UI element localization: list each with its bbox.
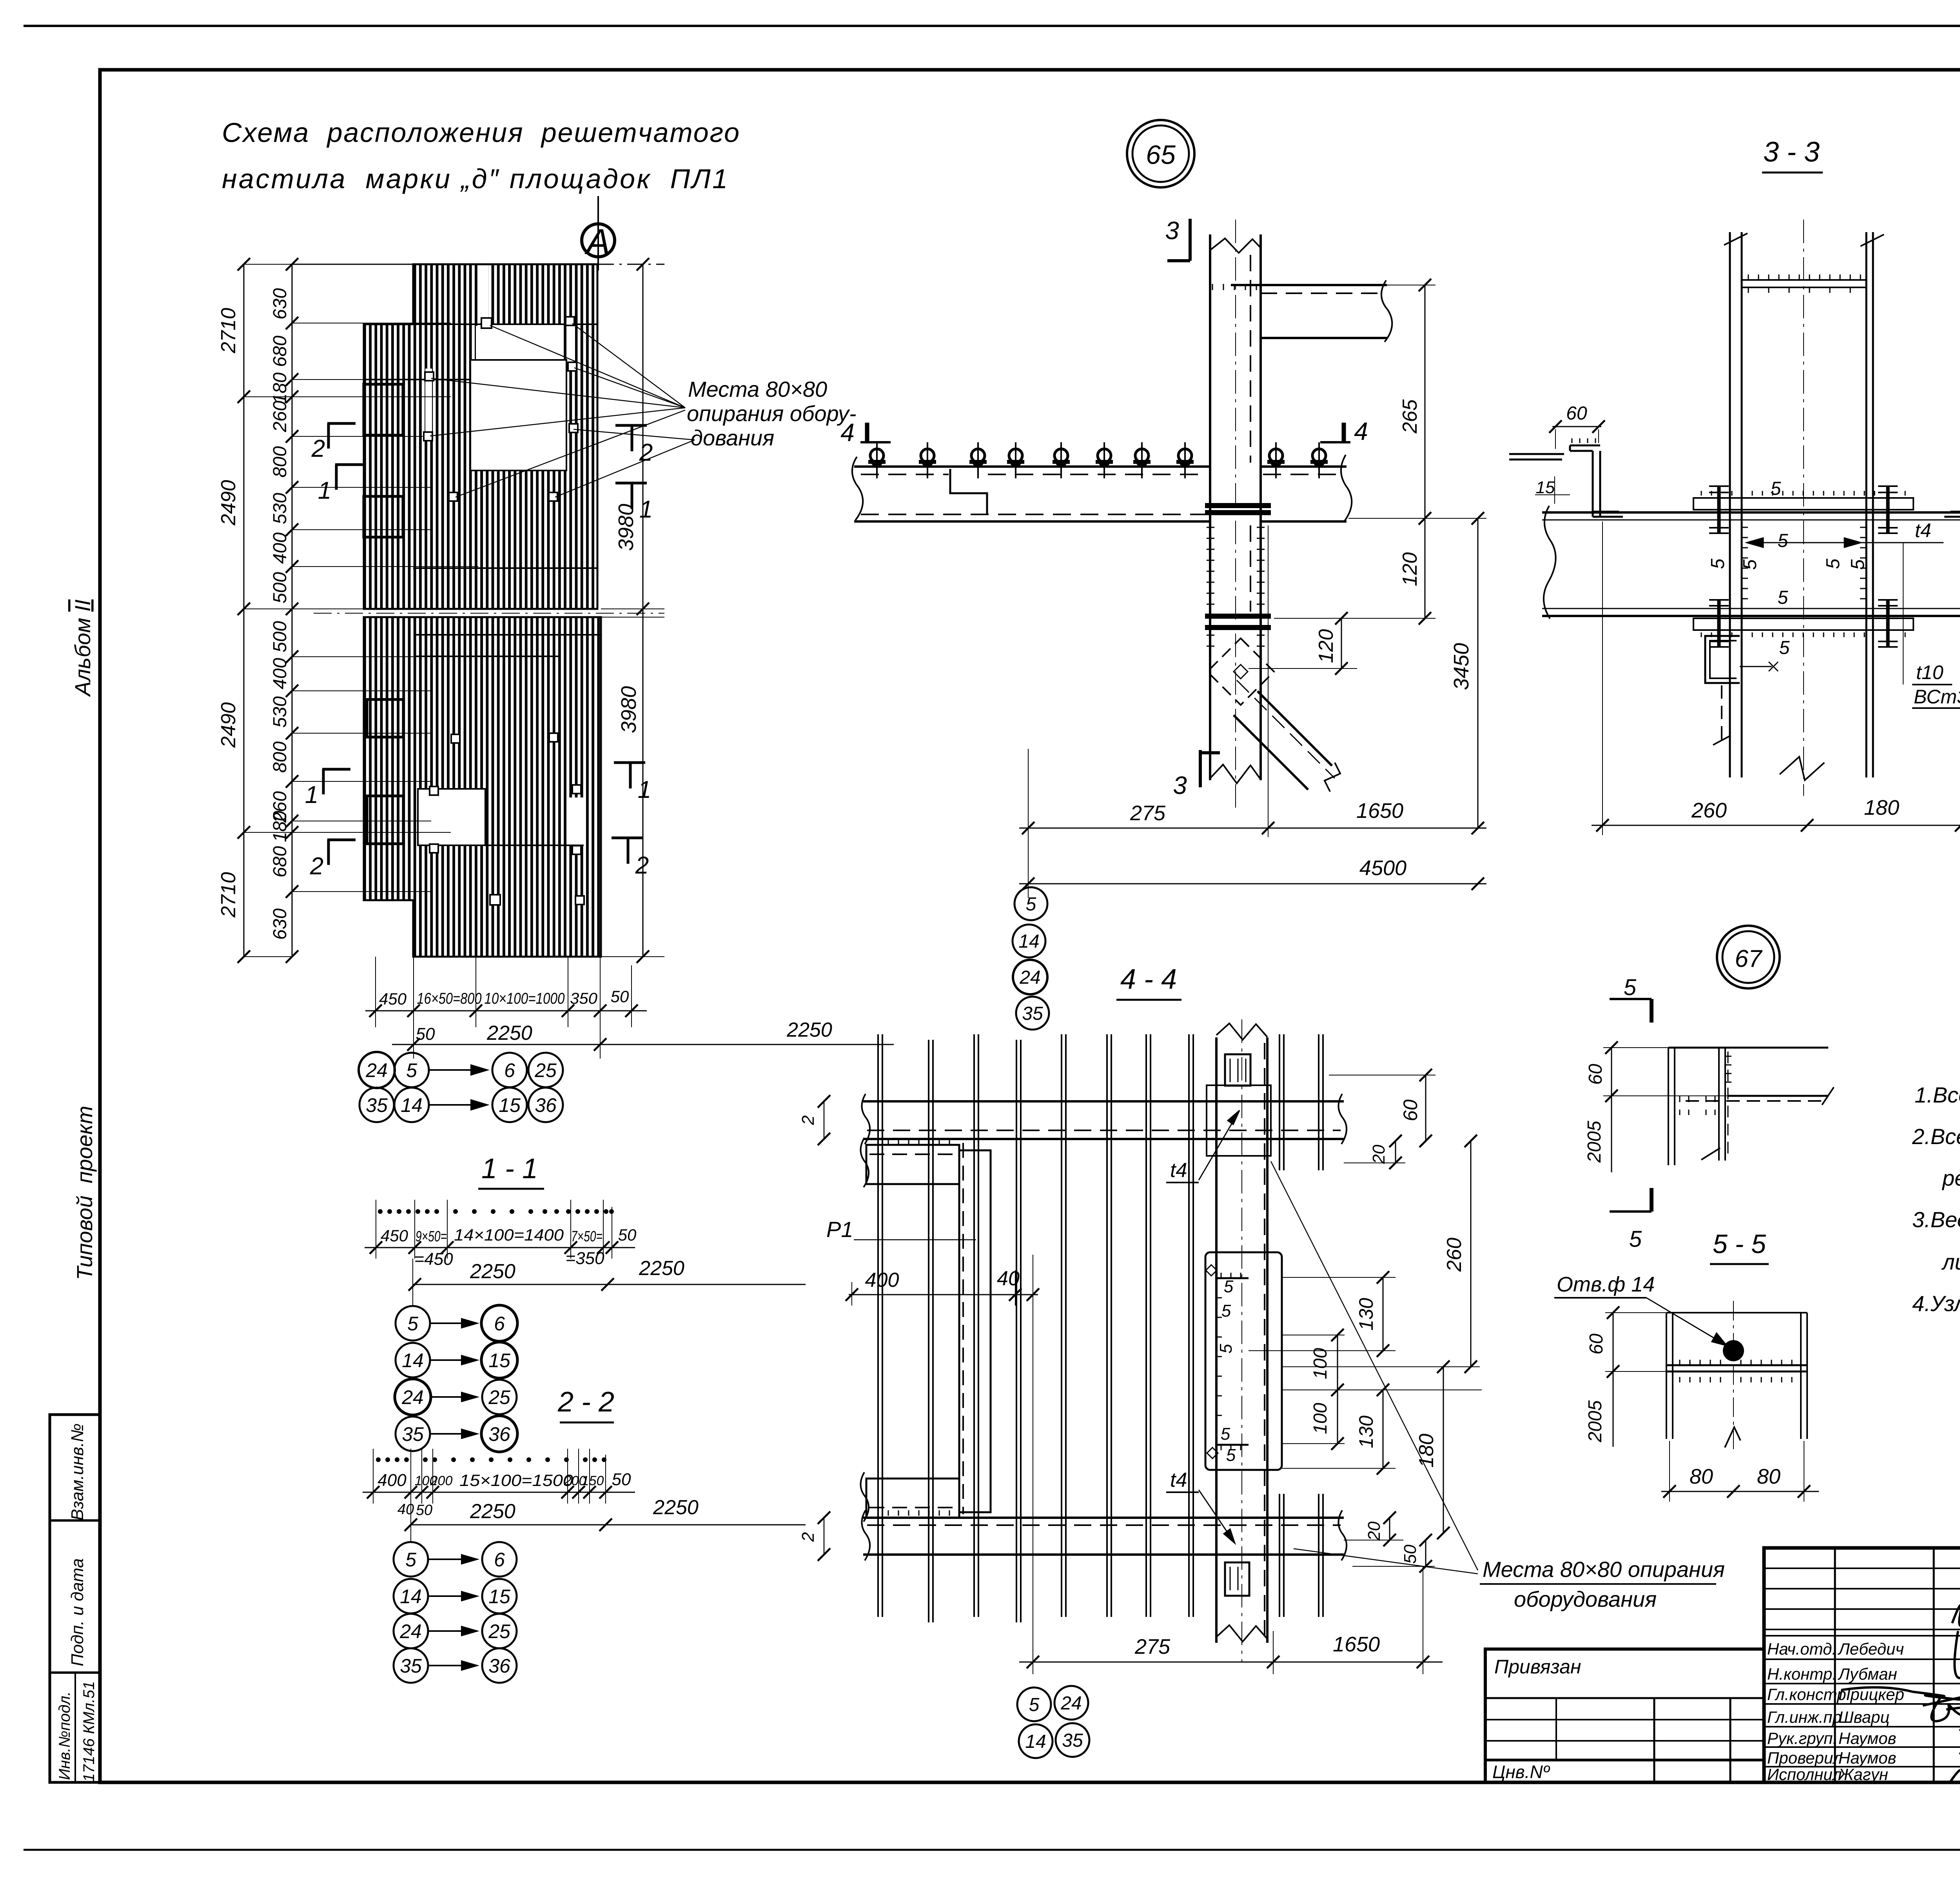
svg-text:680: 680 (270, 336, 290, 367)
column splice plates lower (1205, 614, 1271, 630)
left connection box bottom (860, 1472, 959, 1522)
svg-text:Гл.инж.пр: Гл.инж.пр (1767, 1708, 1842, 1726)
weld dim 2 left top (799, 1095, 830, 1145)
svg-text:4: 4 (840, 418, 855, 447)
svg-text:А: А (584, 222, 610, 262)
svg-text:t4: t4 (1170, 1469, 1187, 1491)
bottom tongue plate (1225, 1562, 1249, 1596)
section 1-1 dotted grating line (378, 1209, 614, 1214)
svg-text:ВСт3кп2: ВСт3кп2 (1914, 686, 1960, 708)
dim 180 right (1415, 1361, 1450, 1539)
svg-text:10×100=1000: 10×100=1000 (485, 990, 565, 1007)
svg-text:25: 25 (488, 1386, 510, 1408)
svg-text:120: 120 (1315, 629, 1338, 663)
svg-text:40: 40 (397, 1501, 414, 1518)
svg-text:3980: 3980 (617, 686, 641, 733)
svg-text:дования: дования (691, 425, 774, 450)
svg-text:150: 150 (582, 1473, 604, 1488)
svg-text:5: 5 (1224, 1277, 1234, 1296)
svg-text:6: 6 (494, 1549, 505, 1571)
mid band axis dash-dot (314, 613, 664, 614)
svg-text:16×50=800: 16×50=800 (417, 990, 482, 1007)
svg-text:2.Все сварные швы Кf = 3мм, кр: 2.Все сварные швы Кf = 3мм, кроме огово- (1912, 1124, 1960, 1152)
svg-text:265: 265 (1399, 399, 1421, 434)
svg-text:15: 15 (1536, 478, 1555, 497)
section mark 2 bottom right (612, 838, 643, 864)
node circle 15 (492, 1088, 527, 1122)
svg-text:Нач.отд.: Нач.отд. (1767, 1640, 1837, 1658)
section 2-2 dimension 2250 row (405, 1496, 806, 1543)
svg-text:1: 1 (318, 477, 331, 504)
svg-text:50: 50 (618, 1226, 637, 1244)
section 1-1 dimension 2250 row (408, 1257, 806, 1306)
section 5-5 bottom dims 80 80 (1661, 1441, 1819, 1502)
leader fan to equipment note (430, 323, 695, 497)
svg-text:80: 80 (1690, 1465, 1713, 1488)
dim 265 and 120 vertical line (1274, 279, 1486, 625)
diagonal brace (1234, 680, 1340, 792)
svg-text:3.Ведомость элементов привед: 3.Ведомость элементов приведена на (1912, 1207, 1960, 1232)
svg-text:180: 180 (1864, 796, 1899, 819)
section mark 1 bottom right (614, 763, 645, 788)
weld labels 5 in splice (1216, 1277, 1236, 1465)
svg-text:2250: 2250 (786, 1019, 832, 1041)
svg-text:настила марки „д″ площадок П: настила марки „д″ площадок ПЛ1 (222, 163, 728, 194)
grating bearing bars (878, 1034, 1323, 1622)
plan bottom dimension row 2 (392, 1019, 894, 1051)
dim 20 right top (1344, 1135, 1405, 1169)
svg-text:20: 20 (1369, 1144, 1388, 1164)
bolts on beam top flange (868, 442, 886, 478)
svg-text:2: 2 (799, 1115, 818, 1125)
svg-text:4.Узлы замаркированы на лис: 4.Узлы замаркированы на листе 50. (1912, 1291, 1960, 1316)
svg-text:5: 5 (1779, 638, 1790, 658)
svg-text:2250: 2250 (639, 1257, 684, 1280)
svg-text:2250: 2250 (470, 1500, 515, 1523)
section 3-3 column flanges (1724, 220, 1884, 796)
svg-text:260: 260 (1691, 799, 1727, 822)
node bubble 65 (1127, 120, 1194, 187)
node circle 36 (528, 1088, 563, 1122)
main title block frame (1764, 1548, 1960, 1782)
dim 60 right top (1329, 1069, 1436, 1147)
svg-text:Отв.ф 14: Отв.ф 14 (1557, 1273, 1655, 1296)
svg-text:400: 400 (270, 532, 290, 564)
P1 stringer plate (959, 1143, 991, 1514)
svg-text:35: 35 (366, 1094, 388, 1116)
dim 20 right bottom (1344, 1511, 1403, 1546)
svg-text:Рук.груп.: Рук.груп. (1767, 1729, 1837, 1747)
svg-text:400: 400 (270, 658, 290, 689)
panel hole outline bottom (418, 789, 485, 845)
svg-text:36: 36 (488, 1423, 510, 1445)
svg-text:5: 5 (1221, 1424, 1230, 1444)
node circle 14 (394, 1088, 429, 1122)
svg-text:6: 6 (494, 1313, 505, 1335)
grating panel main bottom field (364, 617, 601, 900)
section mark 2 top right (615, 425, 647, 451)
left connection box top (860, 1138, 959, 1187)
svg-text:2: 2 (311, 435, 325, 462)
svg-text:1650: 1650 (1333, 1633, 1380, 1656)
white equipment slot c (566, 797, 584, 845)
arrow 5 to 6 (430, 1065, 487, 1075)
grating joint step in beam (950, 469, 987, 514)
axis bubble A (582, 196, 615, 271)
svg-text:2710: 2710 (217, 308, 240, 354)
dim 130 lower (1282, 1384, 1396, 1475)
node circle 35 (359, 1088, 394, 1122)
svg-text:2710: 2710 (217, 872, 240, 918)
svg-text:5: 5 (1026, 894, 1036, 915)
long extension line left reference (1033, 1255, 1033, 1674)
node 67 dims 60 2005 (1584, 1041, 1728, 1172)
dims 100 100 (1282, 1329, 1482, 1450)
svg-text:25: 25 (534, 1059, 557, 1081)
svg-text:680: 680 (270, 846, 290, 877)
main beam right of column (1261, 455, 1352, 521)
dims 400 40 (846, 1267, 1039, 1306)
svg-text:1: 1 (305, 781, 318, 808)
svg-text:2: 2 (635, 852, 649, 879)
svg-text:14: 14 (1018, 931, 1039, 952)
svg-text:Схема расположения решетчато: Схема расположения решетчатого (222, 117, 739, 148)
svg-text:50: 50 (1401, 1544, 1420, 1564)
svg-text:Н.контр.: Н.контр. (1767, 1665, 1837, 1683)
svg-text:50: 50 (612, 1470, 631, 1489)
svg-text:500: 500 (270, 621, 290, 652)
svg-text:4500: 4500 (1359, 856, 1406, 880)
plan left outer dimension chain (217, 258, 292, 963)
svg-text:2490: 2490 (217, 480, 240, 526)
central splice plate with channel (1205, 1252, 1282, 1470)
svg-text:120: 120 (1399, 552, 1421, 587)
svg-text:=350: =350 (565, 1249, 604, 1268)
small diamond bolt hole (1234, 665, 1248, 679)
svg-text:5: 5 (1740, 559, 1760, 570)
svg-text:5: 5 (405, 1549, 416, 1571)
svg-text:1: 1 (638, 776, 651, 803)
plan left inner dimension chain (270, 258, 478, 963)
svg-text:17146 КМл.51: 17146 КМл.51 (80, 1681, 98, 1782)
svg-text:500: 500 (270, 572, 290, 603)
section 2-2 dotted grating line (376, 1457, 606, 1462)
node circle 25 (528, 1053, 563, 1087)
section mark 1 top left (335, 465, 363, 490)
bottom beam (plan) (862, 1510, 1347, 1560)
section 2-2 dimension chain (363, 1449, 635, 1537)
svg-text:36: 36 (535, 1094, 557, 1116)
grating panel row2 left (364, 324, 478, 380)
svg-text:1 - 1: 1 - 1 (481, 1153, 538, 1184)
svg-text:2: 2 (310, 853, 323, 880)
svg-text:Инв.№подл.: Инв.№подл. (56, 1691, 73, 1780)
svg-text:67: 67 (1735, 945, 1763, 972)
svg-text:800: 800 (270, 446, 290, 478)
svg-text:2490: 2490 (217, 702, 240, 748)
white equipment hole bottom (418, 789, 485, 845)
svg-text:15×100=1500: 15×100=1500 (459, 1471, 573, 1489)
main beam left of column (852, 457, 1210, 521)
white equipment slot b (568, 320, 575, 369)
white slot row2 gap (476, 326, 487, 359)
svg-text:260: 260 (1443, 1238, 1466, 1272)
white equipment slot top (478, 264, 488, 323)
svg-text:800: 800 (270, 741, 290, 773)
svg-text:Места 80×80: Места 80×80 (688, 377, 827, 401)
svg-text:5: 5 (1823, 558, 1844, 569)
svg-text:180: 180 (270, 372, 290, 404)
node circle 24 (359, 1052, 395, 1088)
right grating support channel (1944, 445, 1960, 517)
svg-text:35: 35 (1022, 1003, 1043, 1024)
svg-text:400: 400 (377, 1471, 407, 1490)
svg-text:5: 5 (1029, 1695, 1040, 1715)
column (plan view) (1216, 1019, 1267, 1662)
section mark 4 right (1320, 423, 1350, 442)
equipment bearing squares (424, 317, 584, 905)
svg-text:14: 14 (400, 1586, 422, 1608)
svg-text:14: 14 (402, 1350, 424, 1371)
signatures (1842, 1605, 1960, 1802)
svg-text:180: 180 (1415, 1434, 1438, 1468)
svg-text:530: 530 (270, 493, 290, 524)
svg-text:5: 5 (1708, 558, 1728, 569)
section 2-2 node circles 5-6 14-15 24-25 35-36 (394, 1542, 517, 1683)
grating panel row2 right (562, 324, 597, 380)
section 1-1 node circles 5-6 14-15 24-25 35-36 (395, 1305, 517, 1452)
svg-text:5 - 5: 5 - 5 (1713, 1229, 1766, 1259)
diamond bolt marks (1206, 1265, 1218, 1459)
svg-text:Лубман: Лубман (1837, 1665, 1897, 1683)
svg-text:35: 35 (1062, 1730, 1083, 1751)
plan bottom dimension row 1 (365, 957, 647, 1059)
svg-text:60: 60 (1586, 1333, 1607, 1355)
svg-text:Исполнил: Исполнил (1767, 1765, 1842, 1784)
stamp row labels (1767, 1640, 1904, 1784)
plan top extension line with axis dash-dot (292, 264, 597, 265)
section mark 2 top left (327, 423, 356, 449)
svg-text:5: 5 (1629, 1226, 1642, 1252)
lower left channel under beam (1705, 636, 1778, 745)
svg-text:t4: t4 (1170, 1159, 1187, 1182)
svg-text:3: 3 (1173, 771, 1187, 799)
svg-text:3980: 3980 (614, 504, 638, 551)
svg-text:Привязан: Привязан (1494, 1656, 1581, 1678)
svg-text:24: 24 (1060, 1693, 1082, 1714)
svg-text:листе 50: листе 50 (1941, 1250, 1960, 1274)
node circle chain 5 14 24 35 (1014, 887, 1047, 920)
svg-text:оборудования: оборудования (1514, 1587, 1657, 1611)
svg-text:15: 15 (488, 1586, 510, 1608)
svg-text:ренных.: ренных. (1942, 1166, 1960, 1190)
svg-text:5: 5 (1778, 587, 1788, 608)
left grating support channel (1509, 438, 1623, 517)
svg-text:180: 180 (270, 811, 290, 842)
svg-text:20: 20 (1365, 1521, 1384, 1541)
svg-text:450: 450 (381, 1226, 408, 1245)
left margin stamp boxes (50, 1415, 100, 1782)
svg-text:15: 15 (488, 1350, 510, 1371)
dim 260 right (1282, 1135, 1480, 1373)
svg-text:5: 5 (1624, 975, 1637, 1000)
white equipment slot a (425, 369, 432, 441)
dim 50 right bottom (1352, 1534, 1435, 1573)
section mark 3 top (1167, 219, 1190, 261)
svg-text:Шварц: Шварц (1838, 1708, 1889, 1726)
svg-text:5: 5 (1847, 559, 1868, 570)
svg-text:14×100=1400: 14×100=1400 (454, 1226, 564, 1244)
svg-text:80: 80 (1757, 1465, 1780, 1488)
svg-text:Альбом II: Альбом II (70, 599, 95, 697)
svg-text:Цнв.Nº: Цнв.Nº (1492, 1762, 1550, 1782)
weld tick marks on column (1207, 284, 1265, 646)
svg-text:130: 130 (1355, 1298, 1377, 1331)
svg-text:450: 450 (379, 990, 407, 1008)
svg-text:530: 530 (270, 696, 290, 728)
panel outline top half (364, 264, 597, 609)
svg-text:Подп. и дата: Подп. и дата (68, 1558, 87, 1666)
dim 3450 vertical line (1450, 512, 1484, 834)
svg-text:4 - 4: 4 - 4 (1120, 964, 1177, 995)
dim 130 upper (1249, 1271, 1396, 1357)
svg-text:35: 35 (400, 1655, 422, 1677)
svg-text:275: 275 (1134, 1635, 1171, 1658)
svg-text:3: 3 (1165, 216, 1179, 245)
svg-text:5: 5 (1226, 1446, 1236, 1465)
svg-text:200: 200 (430, 1473, 453, 1488)
svg-text:400: 400 (865, 1269, 899, 1291)
svg-text:275: 275 (1130, 801, 1166, 825)
top beam (plan) (862, 1094, 1347, 1144)
upper floor beam right (1231, 280, 1392, 342)
svg-text:60: 60 (1399, 1099, 1421, 1121)
svg-text:630: 630 (270, 908, 290, 940)
svg-text:350: 350 (570, 990, 597, 1007)
column web weld ticks inside beam depth (1742, 527, 1866, 599)
bottom dims 275 1650 (1019, 1566, 1443, 1674)
top tongue plate (1225, 1054, 1250, 1086)
svg-text:60: 60 (1585, 1064, 1606, 1085)
panel internal boundary lines (364, 324, 601, 845)
svg-text:130: 130 (1355, 1415, 1377, 1448)
svg-text:7×50=: 7×50= (571, 1228, 603, 1245)
svg-text:1.Все болты М 12.: 1.Все болты М 12. (1915, 1083, 1960, 1107)
gusset plate dashed diamond (1207, 638, 1274, 705)
column (node 65) (1210, 220, 1261, 810)
dims 275 1650 bottom of node 65 (1019, 525, 1486, 898)
section 3-3 top stiffener (1742, 274, 1866, 293)
panel outline bottom half (364, 617, 601, 957)
node 67 corner detail (1668, 1048, 1834, 1165)
column splice plates upper (1205, 503, 1271, 515)
svg-text:5: 5 (1221, 1301, 1231, 1321)
svg-text:5: 5 (406, 1059, 417, 1081)
svg-text:4: 4 (1354, 417, 1368, 445)
section 5-5 plate detail (1666, 1301, 1807, 1451)
dim 120 inner vertical line (1249, 612, 1357, 675)
svg-text:50: 50 (416, 1024, 435, 1044)
svg-text:260: 260 (270, 401, 290, 432)
svg-text:3 - 3: 3 - 3 (1763, 136, 1820, 168)
svg-text:5: 5 (1778, 530, 1788, 551)
notes text block (1912, 1083, 1960, 1316)
svg-text:25: 25 (488, 1620, 510, 1642)
svg-text:Лебедич: Лебедич (1837, 1640, 1904, 1658)
section 5-5 dims 60 2005 (1585, 1306, 1666, 1447)
svg-text:1: 1 (639, 496, 653, 523)
svg-text:t10: t10 (1916, 661, 1944, 683)
framed sub-panel boxes on left column (364, 384, 403, 844)
svg-text:24: 24 (399, 1620, 422, 1642)
svg-text:6: 6 (504, 1059, 515, 1081)
svg-text:2250: 2250 (486, 1022, 532, 1044)
svg-text:65: 65 (1146, 140, 1176, 170)
svg-text:630: 630 (270, 288, 290, 320)
svg-text:2: 2 (799, 1532, 818, 1542)
svg-text:опирания обору-: опирания обору- (687, 401, 857, 426)
svg-text:2250: 2250 (470, 1260, 515, 1283)
grating panel bottom strip (413, 900, 601, 957)
leaders to bearing spots (1271, 1161, 1478, 1574)
arrow 14 to 15 (430, 1100, 487, 1110)
svg-text:2005: 2005 (1585, 1400, 1606, 1442)
svg-text:50: 50 (611, 987, 629, 1006)
svg-text:2 - 2: 2 - 2 (557, 1386, 614, 1418)
plan right dimension line 3980 (601, 258, 664, 963)
svg-text:14: 14 (401, 1094, 423, 1116)
svg-text:14: 14 (1025, 1731, 1046, 1752)
node bubble 67 (1717, 926, 1780, 988)
svg-text:24: 24 (1019, 967, 1040, 988)
svg-text:5: 5 (1771, 478, 1781, 499)
svg-text:100: 100 (1310, 1403, 1331, 1434)
border outer bottom line (24, 1849, 1960, 1851)
dim 4500 (1019, 856, 1486, 890)
svg-text:3450: 3450 (1450, 643, 1473, 690)
section mark 3 bottom (1200, 750, 1220, 787)
grating panel main top field (364, 380, 597, 609)
bolt hole filled (1723, 1340, 1744, 1361)
section mark 5 lower (1610, 1188, 1651, 1212)
svg-text:100: 100 (1310, 1348, 1331, 1379)
bottom node circles 5 24 14 35 (1017, 1687, 1051, 1721)
svg-text:Жагун: Жагун (1838, 1765, 1888, 1784)
leader for t4 t10 (1903, 543, 1904, 685)
svg-text:5: 5 (1216, 1344, 1236, 1353)
section 3-3 bottom dims 260 180 (1592, 521, 1960, 835)
svg-text:15: 15 (499, 1094, 521, 1116)
svg-text:Типовой проект: Типовой проект (72, 1106, 97, 1280)
svg-text:Наумов: Наумов (1838, 1729, 1896, 1747)
node circle 5 (394, 1053, 429, 1087)
svg-text:24: 24 (365, 1059, 388, 1081)
node circle 6 (492, 1053, 527, 1087)
svg-text:1650: 1650 (1356, 799, 1403, 823)
svg-text:60: 60 (1566, 403, 1587, 424)
svg-text:40: 40 (997, 1267, 1020, 1290)
svg-text:35: 35 (402, 1423, 424, 1445)
section 3-3 main beam (1542, 506, 1960, 619)
section mark 1 bottom left (322, 769, 350, 794)
svg-text:50: 50 (416, 1502, 432, 1519)
svg-text:24: 24 (401, 1386, 424, 1408)
svg-text:Места 80×80 опирания: Места 80×80 опирания (1483, 1557, 1725, 1582)
dim 60 left top (1549, 403, 1605, 449)
privyazan table (1485, 1649, 1764, 1782)
splice plate above beam (1693, 485, 1913, 534)
svg-text:Р1: Р1 (826, 1217, 853, 1242)
